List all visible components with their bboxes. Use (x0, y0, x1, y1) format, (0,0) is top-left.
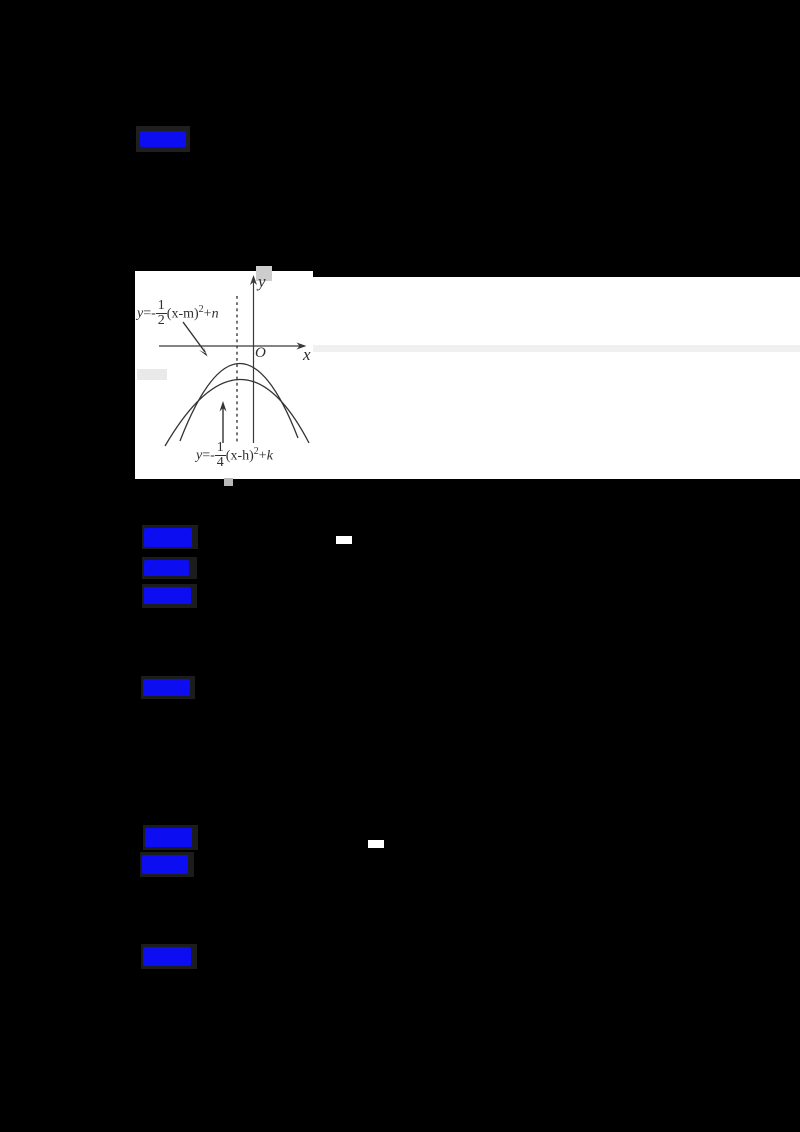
label box 1 backdrop (136, 126, 190, 152)
label box 4 backdrop (142, 584, 197, 608)
label box 7 backdrop (140, 852, 194, 877)
parabola narrow (180, 363, 298, 441)
x-axis (159, 345, 303, 347)
diagonal arrow (183, 322, 205, 352)
gray smudge left edge (137, 369, 167, 380)
label 1 解答 (140, 131, 186, 147)
parabola wide (165, 379, 309, 446)
formula bottom: y=-1/4(x-h)^2+k (196, 441, 273, 470)
label box 8 backdrop (141, 944, 197, 969)
up arrow (222, 406, 224, 443)
gray smudge below box (224, 478, 233, 486)
figure white panel (135, 271, 313, 479)
label 2 考点 (144, 528, 192, 547)
label 7 考点 (142, 855, 188, 874)
label 8 点评 (143, 947, 191, 966)
label 4 分析 (144, 587, 191, 604)
y-axis (253, 281, 255, 443)
label 6 点评 (145, 828, 192, 847)
figure drawing svg (135, 260, 325, 490)
label x (303, 345, 311, 365)
label 5 解答 (143, 679, 190, 696)
white dash 1 (336, 536, 352, 544)
gray smudge above y label (256, 266, 272, 281)
figure white extension strip (313, 277, 800, 479)
label 3 专题 (144, 560, 189, 576)
label y (258, 272, 266, 292)
label box 6 backdrop (143, 825, 198, 850)
dashed line (236, 296, 238, 443)
label O (255, 345, 266, 362)
gray band right of x-axis (313, 345, 800, 352)
label box 2 backdrop (142, 525, 198, 549)
label box 5 backdrop (141, 676, 195, 699)
label box 3 backdrop (142, 557, 197, 579)
white dash 2 (368, 840, 384, 848)
formula top: y=-1/2(x-m)^2+n (137, 299, 219, 328)
